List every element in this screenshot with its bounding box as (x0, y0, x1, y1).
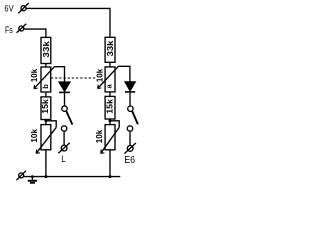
wiper arm upper left pot, to LED anode (34, 67, 65, 89)
potentiometer 10k upper left (body) (30, 67, 51, 92)
junction node left (44, 119, 47, 122)
wire lower contact to terminal E6 (129, 131, 131, 145)
terminal 6V (18, 3, 28, 13)
svg-text:15k: 15k (41, 98, 50, 113)
LED right (125, 82, 135, 106)
rheostat 10k lower left (body) (30, 125, 51, 150)
switch right: lower contact (127, 126, 132, 131)
resistor 33k right (105, 37, 115, 62)
resistor 15k right (105, 96, 115, 119)
switch right: blade (132, 111, 138, 124)
wire 15k to lower pot, right (109, 119, 111, 125)
wiper arm upper right pot, to LED anode (98, 66, 130, 88)
svg-text:b: b (41, 84, 50, 89)
wire lower contact to terminal L (63, 131, 65, 145)
svg-text:33k: 33k (42, 40, 51, 57)
svg-text:15k: 15k (106, 98, 115, 113)
terminal Fs (17, 24, 27, 33)
svg-text:10k: 10k (95, 129, 104, 143)
junction ground stub (31, 175, 34, 178)
svg-text:10k: 10k (30, 68, 39, 82)
arrowhead lower right (101, 150, 105, 154)
arrowhead lower left (36, 150, 40, 154)
terminal E6 (124, 143, 135, 154)
switch left: lower contact (61, 126, 66, 131)
resistor 15k left (41, 97, 51, 120)
wire 33k to pot, right (109, 62, 111, 67)
arrowhead upper right pot (98, 85, 102, 89)
svg-text:10k: 10k (30, 128, 39, 142)
resistor 33k left (41, 37, 51, 63)
svg-text:33k: 33k (106, 40, 115, 57)
arrowhead upper left pot (34, 85, 38, 89)
rheostat link left (wiper to top node) (46, 121, 56, 128)
wire pot to 15k, left (45, 92, 47, 97)
switch left: blade (66, 111, 72, 125)
svg-text:6V: 6V (4, 4, 14, 15)
ground rail wire (23, 176, 120, 178)
svg-text:Fs: Fs (5, 25, 13, 36)
wire Fs to left column (24, 29, 46, 37)
wire 15k to lower pot, left (45, 120, 47, 125)
wire 6V rail to right column (26, 8, 110, 37)
svg-text:E6: E6 (124, 155, 135, 166)
LED left (59, 82, 70, 106)
wire 33k to pot, left (45, 64, 47, 68)
rheostat 10k lower right (body) (95, 125, 115, 150)
rheostat diagonal lower left (36, 127, 56, 153)
wire lower pot to rail, left (45, 150, 47, 177)
switch right: upper contact (128, 106, 133, 111)
wire pot to 15k, right (109, 92, 111, 97)
terminal ground rail (16, 171, 26, 181)
potentiometer 10k upper right (body) (95, 67, 115, 92)
terminal L (58, 143, 70, 154)
junction rail right column (109, 175, 112, 178)
rheostat diagonal lower right (101, 127, 120, 153)
ground symbol (28, 177, 37, 184)
svg-text:L: L (61, 154, 65, 164)
rheostat link right (wiper to top node) (110, 121, 119, 128)
junction node right (109, 119, 112, 122)
optical coupling dashed line (51, 77, 95, 79)
switch left: upper contact (62, 106, 67, 111)
junction rail left column (44, 175, 47, 178)
wire lower pot to rail, right (109, 150, 111, 177)
svg-text:10k: 10k (95, 68, 104, 82)
